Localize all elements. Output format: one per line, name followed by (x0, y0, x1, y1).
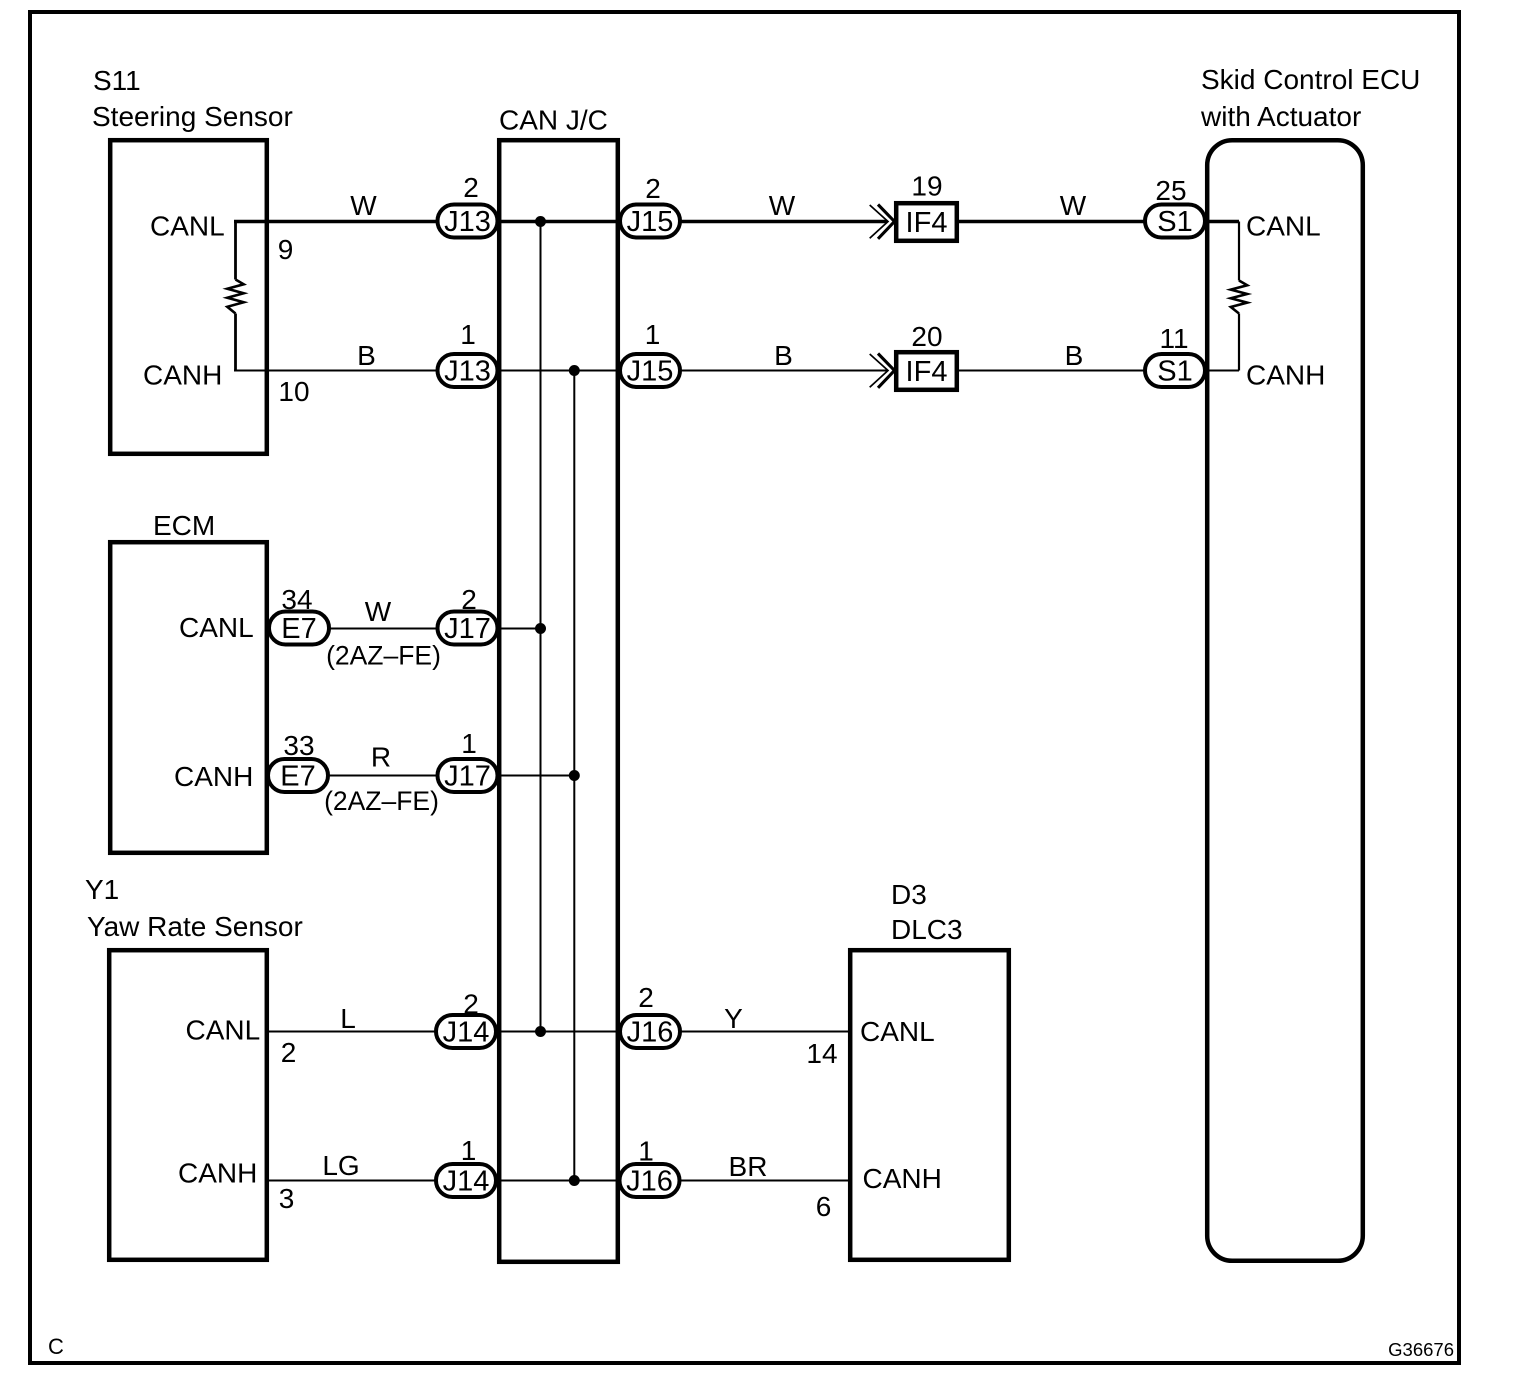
svg-text:1: 1 (461, 1135, 477, 1166)
wire W: IF4 pin 19 to skid ECU S1 pin 25 (958, 220, 1239, 224)
node: J13/J15 pin1 junction (569, 365, 580, 376)
svg-text:2: 2 (463, 172, 479, 203)
steering sensor S11 box (92, 65, 293, 454)
svg-text:D3: D3 (891, 879, 927, 910)
skid control ECU with actuator box (1200, 64, 1420, 1261)
node: J17 pin1 junction (569, 770, 580, 781)
svg-text:B: B (357, 340, 376, 371)
connector S1 pin 25 oval (1145, 205, 1205, 239)
svg-text:1: 1 (461, 728, 477, 759)
connector J13 pin 2 oval (438, 205, 498, 239)
svg-text:DLC3: DLC3 (891, 914, 963, 945)
node: J14/J16 pin2 junction (535, 1026, 546, 1037)
svg-text:L: L (340, 1003, 356, 1034)
svg-text:14: 14 (806, 1038, 837, 1069)
svg-text:B: B (1065, 340, 1084, 371)
wire R (2AZ-FE): ECM E7 pin 33 to J17 pin 1 and CAN J/C bus (270, 775, 574, 777)
svg-text:Yaw Rate Sensor: Yaw Rate Sensor (87, 911, 303, 942)
wire LG / BR row: yaw sensor pin 3 through J14/J16 to DLC3 CANH pin 6 (269, 1180, 851, 1182)
svg-text:1: 1 (645, 319, 661, 350)
connector J16 pin 2 oval (620, 1015, 680, 1049)
wire B: IF4 pin 20 to skid ECU S1 pin 11 (958, 370, 1239, 372)
svg-text:3: 3 (279, 1183, 295, 1214)
svg-text:CANL: CANL (186, 1015, 261, 1046)
connector J15 pin 1 oval (620, 354, 680, 388)
svg-text:with Actuator: with Actuator (1200, 101, 1361, 132)
connector S1 pin 11 oval (1145, 354, 1205, 388)
svg-text:CANH: CANH (1246, 360, 1325, 391)
svg-text:IF4: IF4 (906, 207, 948, 239)
svg-text:J16: J16 (627, 1017, 674, 1049)
inline connector IF4 pin 20 (896, 352, 957, 390)
svg-text:J15: J15 (627, 356, 674, 388)
resistor: CAN terminating resistor inside skid control ECU (1231, 222, 1247, 371)
inline connector IF4 pin 19 (896, 203, 957, 241)
svg-text:B: B (774, 340, 793, 371)
svg-text:W: W (365, 596, 392, 627)
connector J17 pin 1 oval (438, 759, 498, 793)
svg-text:20: 20 (911, 321, 942, 352)
svg-text:2: 2 (638, 982, 654, 1013)
svg-text:J17: J17 (444, 613, 491, 645)
DLC3 connector D3 box (850, 879, 1009, 1260)
svg-text:1: 1 (460, 319, 476, 350)
connector J13 pin 1 oval (438, 354, 498, 388)
svg-text:Y: Y (724, 1003, 743, 1034)
wire W (2AZ-FE): ECM E7 pin 34 to J17 pin 2 and CAN J/C bus (270, 628, 541, 630)
yaw rate sensor Y1 box (85, 874, 303, 1260)
connector J16 pin 1 oval (620, 1164, 680, 1198)
wire W (CANL bus row): S11 pin 9 through J13/J15 to IF4 arrow (234, 220, 887, 224)
svg-text:J13: J13 (444, 206, 491, 238)
svg-text:(2AZ–FE): (2AZ–FE) (326, 641, 441, 671)
svg-text:W: W (1060, 190, 1087, 221)
svg-text:ECM: ECM (153, 510, 215, 541)
svg-text:C: C (48, 1334, 64, 1359)
wire continuation arrow into IF4 (870, 205, 888, 238)
svg-text:34: 34 (281, 584, 312, 615)
connector J14 pin 1 oval (436, 1164, 496, 1198)
ECM box (110, 510, 267, 853)
svg-text:2: 2 (645, 173, 661, 204)
svg-text:S1: S1 (1157, 356, 1192, 388)
svg-text:J14: J14 (443, 1166, 490, 1198)
svg-text:CANH: CANH (174, 761, 253, 792)
svg-text:19: 19 (911, 171, 942, 202)
svg-text:CANL: CANL (860, 1016, 935, 1047)
svg-text:W: W (350, 190, 377, 221)
svg-text:1: 1 (638, 1136, 654, 1167)
CAN J/C internal bus wire (CANL side) (540, 222, 542, 1032)
svg-text:10: 10 (278, 376, 309, 407)
svg-text:2: 2 (281, 1037, 297, 1068)
node: J14/J16 pin1 junction (569, 1175, 580, 1186)
wire L / Y row: yaw sensor pin 2 through J14/J16 to DLC3 CANL pin 14 (269, 1031, 851, 1033)
node: J17 pin2 junction (535, 623, 546, 634)
connector E7 pin 34 oval (269, 612, 329, 646)
svg-text:9: 9 (278, 234, 294, 265)
svg-text:25: 25 (1155, 175, 1186, 206)
connector J14 pin 2 oval (436, 1015, 496, 1049)
svg-text:CANH: CANH (143, 360, 222, 391)
svg-text:R: R (371, 742, 391, 773)
svg-text:11: 11 (1159, 323, 1188, 354)
svg-text:6: 6 (816, 1191, 832, 1222)
svg-text:Skid Control ECU: Skid Control ECU (1201, 64, 1420, 95)
svg-text:IF4: IF4 (906, 356, 948, 388)
svg-text:BR: BR (729, 1151, 768, 1182)
svg-text:W: W (769, 190, 796, 221)
svg-text:Steering Sensor: Steering Sensor (92, 101, 293, 132)
CAN junction connector (CAN J/C) box (499, 105, 618, 1262)
svg-text:CANH: CANH (178, 1158, 257, 1189)
svg-text:E7: E7 (281, 613, 316, 645)
wire continuation arrow into IF4 (870, 354, 888, 387)
wire B (CANH bus row): S11 pin 10 through J13/J15 to IF4 arrow (234, 370, 887, 372)
connector E7 pin 33 oval (268, 759, 328, 793)
svg-text:J14: J14 (443, 1017, 490, 1049)
node: J13/J15 pin2 junction (535, 216, 546, 227)
svg-text:J16: J16 (626, 1166, 673, 1198)
svg-text:CANH: CANH (863, 1163, 942, 1194)
svg-text:J17: J17 (444, 761, 491, 793)
svg-text:S11: S11 (93, 65, 141, 96)
svg-text:J13: J13 (444, 356, 491, 388)
svg-text:33: 33 (283, 730, 314, 761)
svg-text:2: 2 (461, 584, 477, 615)
svg-text:J15: J15 (627, 206, 674, 238)
svg-text:CANL: CANL (179, 612, 254, 643)
connector J15 pin 2 oval (620, 205, 680, 239)
svg-text:2: 2 (463, 989, 479, 1020)
svg-text:LG: LG (322, 1150, 359, 1181)
svg-text:CANL: CANL (1246, 211, 1321, 242)
svg-text:G36676: G36676 (1388, 1339, 1454, 1360)
resistor: CAN terminating resistor inside S11 steering sensor (227, 222, 243, 371)
svg-text:S1: S1 (1157, 206, 1192, 238)
connector J17 pin 2 oval (438, 612, 498, 646)
svg-text:CAN J/C: CAN J/C (499, 105, 608, 136)
CAN J/C internal bus wire (CANH side) (573, 371, 575, 1181)
svg-text:Y1: Y1 (85, 874, 119, 905)
svg-text:E7: E7 (280, 761, 315, 793)
svg-text:CANL: CANL (150, 211, 225, 242)
svg-text:(2AZ–FE): (2AZ–FE) (324, 786, 439, 816)
